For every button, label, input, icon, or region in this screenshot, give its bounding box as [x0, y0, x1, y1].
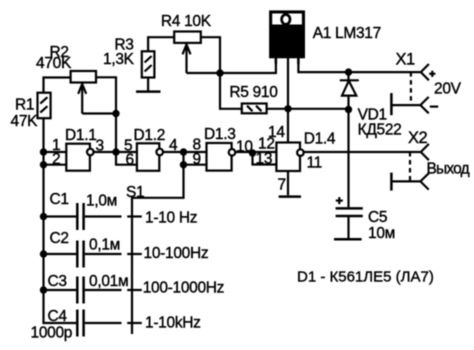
R4 wiper arrow: [183, 44, 191, 74]
svg-text:КД522: КД522: [358, 122, 402, 139]
svg-text:X1: X1: [396, 51, 416, 69]
gate D1.1: [66, 144, 93, 171]
svg-text:10м: 10м: [368, 225, 395, 242]
svg-text:C1: C1: [50, 191, 69, 208]
svg-text:D1.3: D1.3: [204, 126, 236, 143]
svg-text:47K: 47K: [11, 113, 39, 130]
R2 wiper arrow: [78, 83, 86, 114]
svg-text:D1 - К561ЛЕ5 (ЛА7): D1 - К561ЛЕ5 (ЛА7): [297, 269, 434, 286]
minus sign X1: [430, 105, 438, 107]
svg-text:470K: 470K: [36, 55, 72, 72]
svg-text:D1.1: D1.1: [65, 127, 97, 144]
resistor R4 (potentiometer body): [174, 32, 201, 43]
svg-text:1,0м: 1,0м: [86, 193, 117, 210]
ground (C5): [334, 238, 362, 241]
capacitor C3: [44, 277, 122, 304]
svg-text:9: 9: [193, 151, 201, 168]
svg-text:13: 13: [256, 151, 273, 168]
svg-text:0,1м: 0,1м: [89, 237, 120, 254]
wire: down to R5 left: [220, 73, 242, 109]
wire: D1.4 out to X2: [304, 151, 421, 153]
wire: pin13 branch: [253, 153, 277, 165]
resistor R1: [38, 93, 51, 119]
wire: LM317 right pin to X1 plus: [298, 57, 420, 72]
ground (R3): [136, 90, 161, 93]
svg-text:6: 6: [126, 152, 134, 169]
connector X2 plug: [421, 144, 429, 160]
capacitor C2: [44, 241, 122, 268]
node: feedback junction: [112, 148, 119, 155]
node: wiper junction: [112, 110, 119, 117]
wire: supply link to VD1/C5: [288, 108, 349, 110]
svg-text:14: 14: [268, 124, 285, 141]
gate D1.2: [137, 143, 163, 171]
svg-text:1-10kHz: 1-10kHz: [145, 315, 201, 332]
wire: pin9 branch: [184, 152, 207, 165]
svg-text:D1.4: D1.4: [304, 131, 336, 148]
svg-text:X2: X2: [408, 129, 428, 147]
wire: ADJ line to LM317 left pin: [187, 57, 276, 73]
gate D1.3: [207, 143, 236, 171]
node: VD1 top: [345, 68, 352, 75]
C5 plus sign: [336, 197, 343, 204]
switch contact 1: [127, 215, 142, 217]
svg-text:C3: C3: [48, 273, 67, 290]
wire: R2 right terminal down to gate line: [96, 77, 116, 152]
svg-text:R5 910: R5 910: [229, 84, 278, 101]
plus sign X1: [429, 71, 435, 77]
svg-text:C2: C2: [50, 230, 69, 247]
svg-text:R4 10K: R4 10K: [161, 13, 212, 30]
capacitor C5: [336, 208, 363, 238]
svg-text:100-1000Hz: 100-1000Hz: [143, 280, 224, 297]
node: bus pin1: [40, 148, 47, 155]
wire: R5 right to rail: [267, 108, 288, 110]
wire: R3 bottom to ground: [147, 78, 149, 92]
svg-text:0,01м: 0,01м: [89, 273, 128, 290]
dashed link X1: [410, 72, 412, 105]
svg-text:2: 2: [52, 151, 60, 168]
switch contact 2: [127, 253, 142, 255]
wire: R3 top to R4 left: [148, 37, 174, 51]
wire: left bus below R1 down to C4 corner: [44, 118, 77, 323]
voltage regulator A1 LM317: [270, 12, 304, 65]
svg-text:C4: C4: [48, 308, 68, 325]
wire: left bus x=43.5 from R2 corner to R1 top: [44, 78, 71, 93]
wire: R4 right terminal down: [201, 37, 220, 73]
wire: D1.2 out to D1.3: [163, 151, 207, 153]
svg-text:7: 7: [278, 177, 286, 194]
wire: D1.1 out to D1.2: [94, 151, 137, 153]
node: ADJ junction: [216, 69, 223, 76]
wire: pin7 to ground: [287, 171, 289, 195]
svg-text:1-10 Hz: 1-10 Hz: [145, 210, 197, 227]
wire: pin2: [44, 164, 67, 166]
node: VD1 bottom: [345, 106, 352, 113]
svg-text:Выход: Выход: [427, 161, 470, 178]
node: pins 12/13 junction: [249, 149, 256, 156]
node: bus C2: [40, 250, 47, 257]
svg-text:S1: S1: [126, 184, 144, 201]
wire: pin6 branch: [116, 152, 137, 165]
switch contact 4: [127, 322, 142, 324]
svg-text:10-100Hz: 10-100Hz: [144, 245, 209, 262]
node: pin8: [180, 148, 187, 155]
node: bus pin2: [40, 161, 47, 168]
node: bus C3: [40, 286, 47, 293]
ground (pin 7): [279, 195, 301, 198]
svg-text:A1 LM317: A1 LM317: [313, 25, 381, 42]
node: pin14 rail / R5: [284, 105, 291, 112]
svg-text:C5: C5: [368, 209, 387, 226]
resistor R5: [242, 104, 267, 114]
switch contact 3: [127, 289, 142, 291]
svg-text:11: 11: [307, 155, 323, 172]
capacitor C4: [77, 310, 121, 337]
wire: LM317 mid pin rail down to D1.4 pin14: [287, 57, 289, 142]
connector X1 minus socket: [391, 93, 428, 115]
node: pin9 / S1 tap: [180, 161, 187, 168]
svg-text:R1: R1: [15, 97, 34, 114]
wire: pin1: [44, 151, 67, 153]
resistor R3: [142, 51, 155, 77]
svg-text:1,3K: 1,3K: [103, 51, 135, 68]
svg-text:20V: 20V: [434, 81, 462, 98]
connector X1 plus plug: [421, 64, 429, 80]
svg-text:1000p: 1000p: [31, 325, 73, 342]
switch S1 wire from pin9 tap: [132, 165, 184, 334]
connector X2 lower socket: [391, 173, 428, 191]
node: bus C1: [40, 213, 47, 220]
svg-text:D1.2: D1.2: [134, 127, 166, 144]
resistor R2 (potentiometer body): [71, 71, 96, 83]
wire: wiper to node: [82, 112, 116, 114]
capacitor C1: [44, 203, 122, 230]
wire: D1.3 out to D1.4: [235, 151, 276, 153]
dashed link X2: [409, 152, 411, 181]
diode VD1 КД522: [340, 72, 359, 207]
gate D1.4: [276, 143, 303, 172]
